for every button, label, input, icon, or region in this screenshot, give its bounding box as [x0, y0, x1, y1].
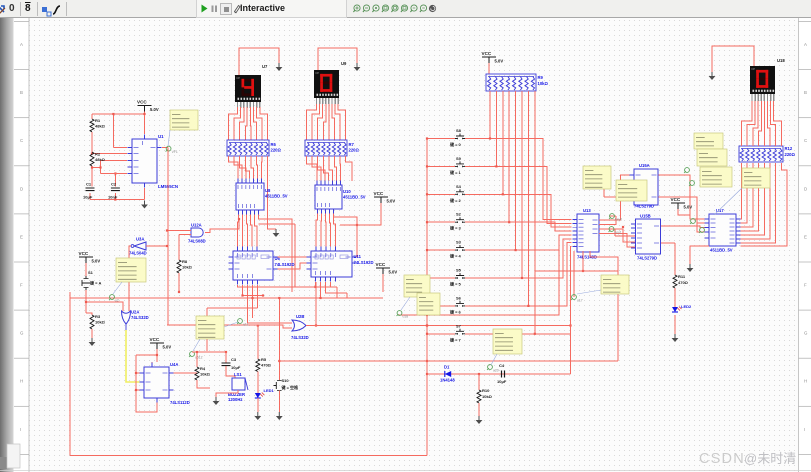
svg-text:U7: U7 [262, 64, 268, 69]
svg-text:键 = 4: 键 = 4 [449, 253, 462, 259]
wire output rail to R4 C3 R5 [192, 351, 227, 367]
svg-text:R10: R10 [482, 388, 490, 393]
svg-text:R4: R4 [200, 366, 206, 371]
decoder U17 4511BD_5V [705, 208, 741, 253]
svg-text:C1: C1 [86, 182, 92, 187]
svg-text:S1: S1 [88, 270, 94, 275]
note above U4A [193, 316, 224, 351]
svg-text:@未时清: @未时清 [744, 451, 796, 466]
U18 display pins [752, 94, 774, 101]
svg-text:CSDN: CSDN [699, 451, 745, 467]
capacitor C3 10uF [222, 357, 241, 381]
wire U7 common to ground [239, 48, 279, 75]
svg-text:U9: U9 [341, 61, 347, 66]
wires R7 to U10 [307, 156, 353, 181]
svg-text:G: G [20, 331, 24, 336]
op-amp U1 LM555CN timer [128, 134, 179, 189]
svg-text:10kΩ: 10kΩ [482, 394, 493, 399]
svg-text:R9: R9 [538, 75, 544, 80]
svg-text:5.0V: 5.0V [389, 270, 398, 275]
svg-text:D1: D1 [444, 365, 450, 370]
svg-text:u17: u17 [577, 299, 583, 303]
svg-text:DP: DP [237, 76, 241, 80]
svg-text:S10: S10 [282, 378, 290, 383]
encoder U13 74LS148D [573, 208, 604, 260]
svg-text:10μF: 10μF [83, 194, 93, 199]
probe (U13 out b) [609, 227, 622, 235]
svg-text:1200Hz: 1200Hz [228, 397, 242, 402]
resistor R2 48kOhm [90, 152, 106, 167]
svg-text:S9: S9 [456, 156, 462, 161]
svg-text:U2A: U2A [131, 310, 139, 315]
svg-text:220Ω: 220Ω [785, 152, 796, 157]
svg-text:74LS32D: 74LS32D [131, 315, 149, 320]
ground (between counters) [273, 229, 280, 237]
svg-text:键 = 3: 键 = 3 [449, 225, 462, 231]
capacitor C1 10uF [83, 182, 95, 200]
switch S7 键 = 7 [426, 323, 465, 342]
note near U1 [168, 110, 198, 146]
wires R12 to U18 [742, 101, 782, 146]
svg-text:VCC: VCC [671, 197, 681, 202]
wire bottom-right loops [279, 246, 618, 374]
svg-text:48kΩ: 48kΩ [95, 124, 106, 129]
switch S3 键 = 4 [426, 240, 465, 259]
svg-text:C: C [804, 138, 807, 143]
wires U2B [167, 323, 572, 328]
power VCC 5.0V (R9) [482, 51, 504, 74]
svg-text:10μF: 10μF [231, 365, 241, 370]
svg-text:H: H [20, 379, 23, 384]
wires U3A [129, 245, 168, 306]
svg-text:5.0V: 5.0V [92, 259, 101, 264]
svg-text:U15B: U15B [640, 214, 651, 219]
svg-text:1N4148: 1N4148 [440, 378, 455, 383]
svg-text:4511BD_5V: 4511BD_5V [265, 194, 288, 199]
svg-text:U10: U10 [343, 189, 351, 194]
svg-text:S5: S5 [456, 268, 462, 273]
svg-text:B: B [20, 90, 23, 95]
probes near U17 [684, 168, 704, 233]
svg-text:48kΩ: 48kΩ [95, 157, 106, 162]
switch S6 键 = 6 [426, 295, 465, 314]
capacitor C4 10uF [497, 363, 507, 384]
note near R12 [714, 168, 770, 215]
svg-text:VCC: VCC [482, 51, 492, 56]
svg-text:R7: R7 [349, 142, 355, 147]
zoom icons right [352, 2, 442, 16]
wires U13 outputs [574, 175, 636, 297]
svg-text:I: I [20, 427, 21, 432]
svg-text:5.0V: 5.0V [387, 199, 396, 204]
svg-text:键 = 2: 键 = 2 [449, 197, 462, 203]
latch U15A 74LS279D [630, 163, 663, 209]
wires U7 to R6 [229, 107, 268, 140]
resistor R11 470Ohm [673, 243, 689, 307]
note near U11 output [401, 275, 440, 315]
svg-text:S4: S4 [456, 184, 462, 189]
note left of U15A [583, 166, 611, 189]
ground (R10) [476, 416, 483, 424]
svg-text:5.0V: 5.0V [684, 205, 693, 210]
svg-text:220Ω: 220Ω [271, 148, 282, 153]
svg-text:VCC: VCC [376, 262, 386, 267]
svg-text:R12: R12 [785, 146, 793, 151]
svg-text:5.0V: 5.0V [163, 345, 172, 350]
svg-text:u11: u11 [243, 323, 249, 327]
svg-text:VF1: VF1 [172, 150, 178, 154]
svg-text:U1: U1 [158, 134, 164, 139]
resistor R8 10kOhm [177, 259, 193, 293]
svg-text:u20: u20 [493, 369, 499, 373]
probe (D1 node) [487, 365, 499, 373]
svg-text:U4A: U4A [170, 362, 178, 367]
svg-text:键 = 5: 键 = 5 [449, 281, 462, 287]
svg-text:R1: R1 [95, 118, 101, 123]
ground (U18) [709, 72, 716, 80]
svg-text:4511BD_5V: 4511BD_5V [710, 248, 733, 253]
svg-text:键 = 1: 键 = 1 [449, 169, 462, 175]
svg-text:VCC: VCC [79, 251, 89, 256]
wire row 1 to encoder [465, 91, 572, 223]
svg-text:F: F [804, 283, 807, 288]
simulate group [196, 0, 347, 18]
svg-text:U18: U18 [777, 58, 785, 63]
svg-text:74LS04D: 74LS04D [129, 251, 147, 256]
U9 display pins [317, 98, 339, 104]
power VCC 5.0V (U17) [671, 197, 693, 219]
switch S2 键 = 3 [426, 212, 465, 231]
power VCC 5.0V (555) [137, 100, 159, 113]
svg-text:74LS279D: 74LS279D [634, 204, 654, 209]
probe (note5) [397, 311, 409, 319]
svg-text:74LS192D: 74LS192D [275, 262, 295, 267]
svg-text:R6: R6 [271, 142, 277, 147]
resistor network R6 220Ohm [227, 140, 281, 156]
resistor R3 10kOhm [86, 313, 106, 338]
svg-text:VCC: VCC [374, 191, 384, 196]
switch S9 键 = 1 [426, 156, 465, 175]
svg-text:10nF: 10nF [108, 194, 118, 199]
svg-text:D: D [20, 186, 23, 191]
resistor R4 10kOhm [195, 366, 211, 388]
svg-text:DP: DP [752, 67, 756, 71]
svg-text:U13: U13 [583, 208, 591, 213]
logic gate U2A 74LS32D [122, 310, 149, 325]
ground (buzzer) [213, 397, 220, 405]
svg-text:S8: S8 [456, 128, 462, 133]
svg-text:A: A [20, 42, 23, 47]
note near S1 [113, 258, 146, 294]
wire row 2 to encoder [465, 91, 572, 227]
wires U4A frame [135, 349, 197, 412]
svg-text:键 = 空格: 键 = 空格 [281, 384, 300, 390]
power VCC 5.0V (U4A) [150, 337, 172, 350]
svg-text:U8: U8 [265, 188, 271, 193]
U7 display pins [238, 102, 260, 108]
ground (555) [141, 201, 148, 209]
ground (S10) [276, 412, 283, 420]
svg-text:S3: S3 [456, 240, 462, 245]
svg-text:D: D [804, 186, 807, 191]
svg-text:key0: key0 [615, 218, 622, 222]
svg-text:键 = 7: 键 = 7 [449, 336, 462, 342]
svg-text:I: I [804, 427, 805, 432]
power VCC 5.0V (U11) [376, 262, 398, 275]
svg-text:10kΩ: 10kΩ [182, 265, 193, 270]
counter U11 74LS192D [307, 247, 374, 282]
svg-text:220Ω: 220Ω [349, 148, 360, 153]
7-segment display U18 showing 0 [750, 58, 785, 94]
svg-text:10kΩ: 10kΩ [538, 81, 549, 86]
wire row 4 to encoder [465, 91, 572, 251]
svg-text:10kΩ: 10kΩ [200, 372, 211, 377]
power VCC 5.0V (S1) [79, 251, 101, 264]
note below U15B [577, 275, 629, 294]
wire row 0 to encoder [465, 91, 572, 220]
svg-text:F: F [20, 283, 23, 288]
svg-text:key1: key1 [615, 231, 622, 235]
7-segment display U7 showing 4 [235, 64, 268, 102]
wires U17 to R12 [741, 163, 788, 246]
svg-text:R3: R3 [95, 314, 101, 319]
svg-text:U15A: U15A [639, 163, 650, 168]
svg-text:5.0V: 5.0V [150, 107, 159, 112]
svg-text:470Ω: 470Ω [678, 280, 689, 285]
svg-text:键 = 6: 键 = 6 [449, 308, 462, 314]
svg-text:LED1: LED1 [264, 388, 275, 393]
wire S1 node [85, 290, 129, 313]
resistor R1 48kOhm [90, 118, 106, 132]
resistor network R7 220Ohm [305, 140, 359, 156]
switch S8 键 = 0 [426, 128, 465, 147]
svg-text:u18: u18 [403, 315, 409, 319]
wire VCC to U1 and left rail [90, 106, 168, 201]
svg-text:10kΩ: 10kΩ [95, 320, 106, 325]
wire U2A output (yellow) [126, 324, 140, 382]
wires U9 to R7 [307, 104, 346, 140]
switch S5 键 = 5 [426, 268, 465, 287]
wire row 3 to encoder [465, 91, 572, 231]
decoder U8 4511BD_5V [236, 179, 288, 215]
svg-text:470Ω: 470Ω [261, 363, 272, 368]
svg-text:H: H [804, 379, 807, 384]
counter U6 74LS192D [229, 247, 295, 285]
svg-text:74LS279D: 74LS279D [637, 256, 657, 261]
svg-text:U2B: U2B [296, 314, 304, 319]
svg-text:E: E [804, 234, 807, 239]
svg-text:R5: R5 [261, 357, 267, 362]
wire U9 common to ground [318, 48, 357, 70]
svg-text:74LS192D: 74LS192D [354, 260, 374, 265]
logic gate U2B 74LS32D [291, 314, 309, 340]
logic gate U12A 74LS08D [188, 223, 206, 244]
7-segment display U9 showing 0 [314, 61, 347, 98]
svg-text:C3: C3 [231, 357, 237, 362]
svg-text:VCC: VCC [137, 100, 147, 105]
probe (U13 bottom) [571, 295, 583, 303]
svg-text:5.0V: 5.0V [495, 59, 504, 64]
wire U18 common to ground [712, 46, 754, 72]
svg-text:LED2: LED2 [681, 304, 692, 309]
switch S1 key A [82, 263, 102, 290]
ground (U17) [687, 246, 709, 272]
wire row 6 to encoder [465, 91, 572, 307]
ground (U9) [354, 63, 361, 71]
svg-text:R11: R11 [678, 274, 686, 279]
svg-text:LS1: LS1 [234, 372, 242, 377]
power VCC 5.0V (U10) [374, 191, 396, 204]
probe near note3 [224, 319, 249, 327]
svg-text:E: E [20, 234, 23, 239]
probe U4A output [189, 352, 203, 360]
probe on 555 output [166, 146, 178, 154]
wire counter bottom bus [70, 282, 383, 351]
capacitor C2 10nF [108, 182, 120, 200]
wires R6 to U8 [229, 156, 277, 229]
note center (U15 area) [616, 180, 647, 201]
inverter U3A 74LS04D [129, 237, 147, 256]
svg-text:u2: u2 [115, 299, 119, 303]
svg-text:DP: DP [316, 71, 320, 75]
svg-text:U11: U11 [354, 254, 362, 259]
wires U8 to U6 [238, 215, 296, 293]
flip-flop U4A 74LS112D [140, 362, 190, 405]
resistor network R9 10kOhm [486, 74, 548, 91]
svg-text:74LS112D: 74LS112D [170, 400, 190, 405]
wire VCC to U10 rail [340, 203, 381, 226]
wire ladder bus [426, 139, 428, 456]
wire 555 output down [167, 148, 169, 326]
decoder U10 4511BD_5V [315, 181, 366, 214]
ground (LED2) [672, 334, 679, 342]
wires U15 to U17 [659, 175, 705, 243]
wires U12A [166, 218, 240, 260]
svg-text:键 = A: 键 = A [89, 280, 102, 286]
switch S10 key space [274, 297, 300, 412]
resistor R5 470Ohm [256, 324, 272, 393]
resistor network R12 220Ohm [739, 146, 795, 162]
svg-text:S6: S6 [456, 295, 462, 300]
probe (U13 out a) [609, 214, 622, 222]
ground (LED1) [254, 412, 261, 420]
svg-text:C: C [20, 138, 23, 143]
svg-text:74LS32D: 74LS32D [291, 335, 309, 340]
wires U10 to U11 [316, 214, 357, 258]
svg-text:G: G [804, 331, 808, 336]
junction + R10 [477, 373, 493, 416]
LED1 [255, 388, 275, 412]
buzzer LS1 1200Hz [216, 372, 248, 402]
svg-text:B: B [804, 90, 807, 95]
wire row 7 to encoder [465, 91, 572, 335]
svg-text:U3A: U3A [136, 237, 144, 242]
ground (U7) [276, 63, 283, 71]
latch U15B 74LS279D [631, 214, 665, 261]
svg-text:A: A [804, 42, 807, 47]
wire VCC to U11 rail [382, 274, 384, 292]
switch S4 键 = 2 [426, 184, 465, 203]
LED2 [672, 304, 692, 334]
svg-text:4511BD_5V: 4511BD_5V [343, 195, 366, 200]
diode D1 1N4148 [440, 365, 455, 383]
svg-text:R8: R8 [182, 259, 188, 264]
wire left rail to bottom [70, 292, 427, 456]
wire U6 carry to U11 [278, 257, 307, 269]
probe on S1 line [109, 295, 119, 303]
svg-text:S2: S2 [456, 212, 462, 217]
ground (R3) [89, 338, 96, 346]
wire row 5 to encoder [465, 91, 572, 279]
svg-text:74LS08D: 74LS08D [188, 239, 206, 244]
svg-text:U12A: U12A [191, 223, 202, 228]
svg-text:VCC: VCC [150, 337, 160, 342]
svg-text:u512: u512 [195, 356, 203, 360]
notes right stack [694, 133, 732, 187]
note left of S7 [491, 329, 522, 365]
svg-text:R2: R2 [95, 152, 101, 157]
svg-text:C2: C2 [111, 182, 117, 187]
svg-text:键 = 0: 键 = 0 [449, 141, 462, 147]
svg-text:10μF: 10μF [497, 379, 507, 384]
svg-text:S7: S7 [456, 323, 462, 328]
svg-text:C4: C4 [499, 363, 505, 368]
toolbar left icons [0, 3, 7, 15]
